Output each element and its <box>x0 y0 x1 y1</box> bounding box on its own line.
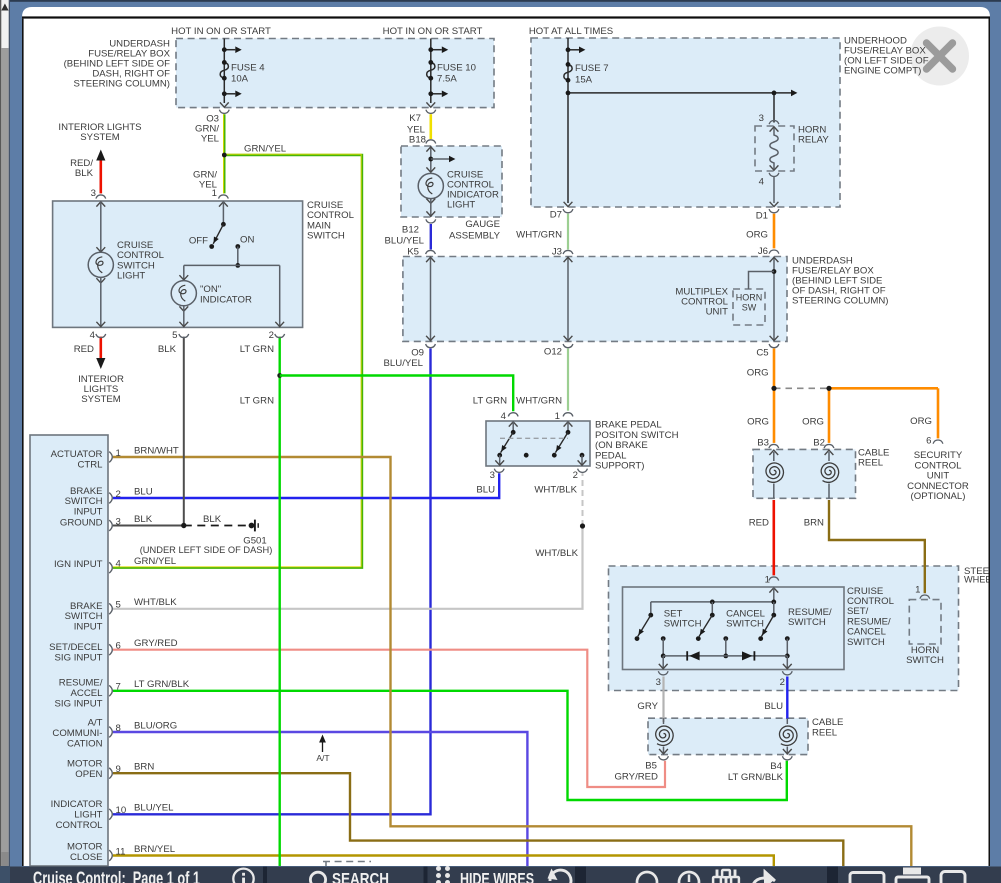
svg-text:GRN/YEL: GRN/YEL <box>134 556 177 567</box>
svg-text:BRN/WHT: BRN/WHT <box>134 445 179 456</box>
svg-text:GRN/YEL: GRN/YEL <box>244 144 287 155</box>
svg-text:C5: C5 <box>756 348 768 359</box>
svg-text:CONTROL: CONTROL <box>56 820 104 831</box>
svg-text:BRN: BRN <box>134 762 154 773</box>
svg-text:ACCEL: ACCEL <box>71 688 104 699</box>
svg-text:D1: D1 <box>756 211 768 222</box>
svg-text:4: 4 <box>759 177 765 188</box>
svg-text:3: 3 <box>759 113 764 124</box>
svg-text:5: 5 <box>172 330 177 341</box>
svg-text:7.5A: 7.5A <box>437 74 457 85</box>
svg-text:COMMUNI-: COMMUNI- <box>52 728 102 739</box>
svg-text:RED: RED <box>749 518 769 529</box>
svg-text:LT GRN: LT GRN <box>240 344 274 355</box>
svg-text:B18: B18 <box>409 135 426 146</box>
svg-text:10A: 10A <box>231 74 249 85</box>
svg-text:A/T: A/T <box>88 718 103 729</box>
svg-text:11: 11 <box>116 846 126 857</box>
svg-text:B5: B5 <box>645 760 657 771</box>
svg-text:MOTOR: MOTOR <box>67 759 103 770</box>
svg-text:HOT IN ON OR START: HOT IN ON OR START <box>383 26 483 37</box>
svg-text:ORG: ORG <box>746 230 768 241</box>
svg-text:REEL: REEL <box>858 458 884 469</box>
svg-text:OFF: OFF <box>189 236 208 247</box>
svg-text:O12: O12 <box>544 346 562 357</box>
svg-text:3: 3 <box>656 677 661 688</box>
svg-text:BLU/YEL: BLU/YEL <box>384 358 424 369</box>
svg-text:SWITCH: SWITCH <box>65 496 103 507</box>
svg-text:BLK: BLK <box>134 514 153 525</box>
svg-text:BLU/YEL: BLU/YEL <box>385 236 425 247</box>
svg-text:GRY/RED: GRY/RED <box>134 638 178 649</box>
svg-text:1: 1 <box>116 448 121 459</box>
svg-text:LIGHT: LIGHT <box>74 810 102 821</box>
svg-text:BLU: BLU <box>476 485 495 496</box>
svg-text:6: 6 <box>116 641 121 652</box>
svg-text:BLU/ORG: BLU/ORG <box>134 720 177 731</box>
svg-text:1: 1 <box>765 574 770 585</box>
svg-text:FUSE 7: FUSE 7 <box>575 63 609 74</box>
svg-text:Cruise Control: Page 1 of 1: Cruise Control: Page 1 of 1 <box>33 869 200 883</box>
svg-text:1: 1 <box>915 585 920 596</box>
svg-text:GROUND: GROUND <box>60 518 103 529</box>
svg-text:SWITCH: SWITCH <box>307 231 345 242</box>
svg-text:ASSEMBLY: ASSEMBLY <box>449 231 501 242</box>
svg-text:WHT/GRN: WHT/GRN <box>516 230 562 241</box>
svg-text:GRY: GRY <box>637 701 658 712</box>
svg-text:O9: O9 <box>411 347 424 358</box>
svg-text:BLK: BLK <box>75 168 94 179</box>
svg-text:SWITCH: SWITCH <box>906 655 944 666</box>
svg-text:SWITCH: SWITCH <box>65 611 103 622</box>
svg-text:4: 4 <box>501 411 507 422</box>
svg-text:ORG: ORG <box>802 417 824 428</box>
svg-text:BRN: BRN <box>804 518 824 529</box>
svg-text:HOT IN ON OR START: HOT IN ON OR START <box>171 26 271 37</box>
svg-text:K7: K7 <box>409 113 421 124</box>
svg-text:B12: B12 <box>402 225 419 236</box>
svg-text:BLU/YEL: BLU/YEL <box>134 803 174 814</box>
svg-text:BLK: BLK <box>203 514 222 525</box>
svg-text:ENGINE COMPT): ENGINE COMPT) <box>844 66 921 77</box>
svg-text:INDICATOR: INDICATOR <box>200 294 252 305</box>
svg-text:STEERING COLUMN): STEERING COLUMN) <box>792 296 888 307</box>
svg-text:CTRL: CTRL <box>77 459 103 470</box>
svg-text:BRAKE: BRAKE <box>70 601 103 612</box>
svg-text:3: 3 <box>91 188 96 199</box>
svg-text:7: 7 <box>116 682 121 693</box>
svg-text:BRAKE: BRAKE <box>70 486 103 497</box>
svg-text:UNIT: UNIT <box>706 307 729 318</box>
svg-text:GRY/RED: GRY/RED <box>614 772 658 783</box>
svg-text:J3: J3 <box>552 247 562 258</box>
svg-text:(UNDER LEFT SIDE OF DASH): (UNDER LEFT SIDE OF DASH) <box>140 545 273 555</box>
svg-text:INDICATOR: INDICATOR <box>51 799 103 810</box>
svg-text:D7: D7 <box>550 210 562 221</box>
svg-text:(OPTIONAL): (OPTIONAL) <box>911 491 966 502</box>
svg-text:SEARCH: SEARCH <box>332 871 389 883</box>
svg-text:B2: B2 <box>813 437 825 448</box>
svg-text:YEL: YEL <box>201 134 220 145</box>
svg-text:STEERING COLUMN): STEERING COLUMN) <box>74 79 170 90</box>
svg-text:SWITCH: SWITCH <box>726 619 764 630</box>
svg-text:LT GRN: LT GRN <box>473 395 507 406</box>
svg-text:ACTUATOR: ACTUATOR <box>51 449 103 460</box>
svg-text:INPUT: INPUT <box>74 622 103 633</box>
svg-text:WHT/BLK: WHT/BLK <box>534 485 577 496</box>
svg-text:REEL: REEL <box>812 728 838 739</box>
svg-text:HOT AT ALL TIMES: HOT AT ALL TIMES <box>529 26 613 37</box>
svg-text:10: 10 <box>116 805 127 816</box>
svg-text:J6: J6 <box>758 246 768 257</box>
svg-text:ORG: ORG <box>747 367 769 378</box>
svg-text:WHT/BLK: WHT/BLK <box>535 548 578 559</box>
svg-text:SYSTEM: SYSTEM <box>80 132 119 143</box>
svg-text:B4: B4 <box>770 761 782 772</box>
svg-text:CATION: CATION <box>67 739 103 750</box>
svg-text:OPEN: OPEN <box>75 769 102 780</box>
svg-text:SET/DECEL: SET/DECEL <box>49 642 103 653</box>
svg-text:BLU: BLU <box>134 486 153 497</box>
svg-text:2: 2 <box>116 489 121 500</box>
svg-text:SIG INPUT: SIG INPUT <box>55 652 103 663</box>
svg-text:BLU: BLU <box>764 701 783 712</box>
svg-text:SW: SW <box>742 303 757 313</box>
svg-text:RELAY: RELAY <box>798 135 829 146</box>
svg-text:BLK: BLK <box>158 344 177 355</box>
svg-text:2: 2 <box>269 330 274 341</box>
svg-text:4: 4 <box>116 559 122 570</box>
svg-text:LIGHT: LIGHT <box>447 200 475 211</box>
svg-text:2: 2 <box>780 677 785 688</box>
svg-text:CLOSE: CLOSE <box>70 852 103 863</box>
svg-text:6: 6 <box>926 435 931 446</box>
svg-text:RESUME/: RESUME/ <box>59 678 103 689</box>
svg-text:SWITCH: SWITCH <box>664 619 702 630</box>
svg-text:LT GRN/BLK: LT GRN/BLK <box>134 679 190 690</box>
svg-text:FUSE 4: FUSE 4 <box>231 63 265 74</box>
svg-text:SIG INPUT: SIG INPUT <box>55 698 103 709</box>
svg-text:HORN: HORN <box>736 293 763 303</box>
svg-text:SWITCH: SWITCH <box>788 617 826 628</box>
svg-text:ORG: ORG <box>747 417 769 428</box>
svg-text:BRN/YEL: BRN/YEL <box>134 844 176 855</box>
svg-text:RED: RED <box>74 344 94 355</box>
svg-text:CABLE: CABLE <box>812 717 843 728</box>
svg-text:ORG: ORG <box>910 416 932 427</box>
svg-text:3: 3 <box>490 470 495 481</box>
svg-text:WHT/BLK: WHT/BLK <box>134 597 177 608</box>
svg-text:WHT/GRN: WHT/GRN <box>516 395 562 406</box>
svg-text:IGN INPUT: IGN INPUT <box>54 559 103 570</box>
svg-text:LT GRN: LT GRN <box>240 395 274 406</box>
svg-text:HIDE WIRES: HIDE WIRES <box>460 871 534 883</box>
svg-text:8: 8 <box>116 723 121 734</box>
svg-text:K5: K5 <box>407 247 419 258</box>
svg-text:3: 3 <box>116 516 121 527</box>
svg-text:ON: ON <box>240 235 254 246</box>
svg-text:4: 4 <box>90 330 96 341</box>
svg-text:SYSTEM: SYSTEM <box>81 394 120 405</box>
svg-text:LT GRN/BLK: LT GRN/BLK <box>728 772 784 783</box>
svg-text:2: 2 <box>573 470 578 481</box>
svg-text:GAUGE: GAUGE <box>465 219 500 230</box>
svg-text:A/T: A/T <box>316 753 330 763</box>
svg-text:9: 9 <box>116 764 121 775</box>
svg-text:5: 5 <box>116 600 121 611</box>
svg-text:B3: B3 <box>757 437 769 448</box>
svg-text:MOTOR: MOTOR <box>67 841 103 852</box>
svg-text:1: 1 <box>555 411 560 422</box>
svg-text:1: 1 <box>212 188 217 199</box>
svg-text:INPUT: INPUT <box>74 507 103 518</box>
svg-text:SUPPORT): SUPPORT) <box>595 461 644 472</box>
svg-text:15A: 15A <box>575 75 593 86</box>
svg-text:FUSE 10: FUSE 10 <box>437 63 476 74</box>
svg-text:SWITCH: SWITCH <box>847 637 885 648</box>
svg-text:LIGHT: LIGHT <box>117 271 145 282</box>
